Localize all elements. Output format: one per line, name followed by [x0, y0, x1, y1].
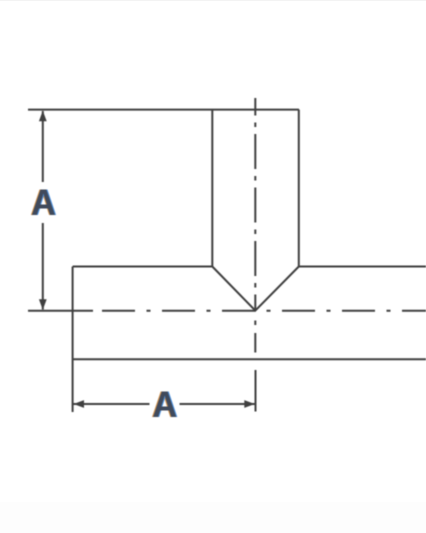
svg-text:A: A [31, 182, 56, 223]
svg-text:A: A [152, 384, 177, 425]
